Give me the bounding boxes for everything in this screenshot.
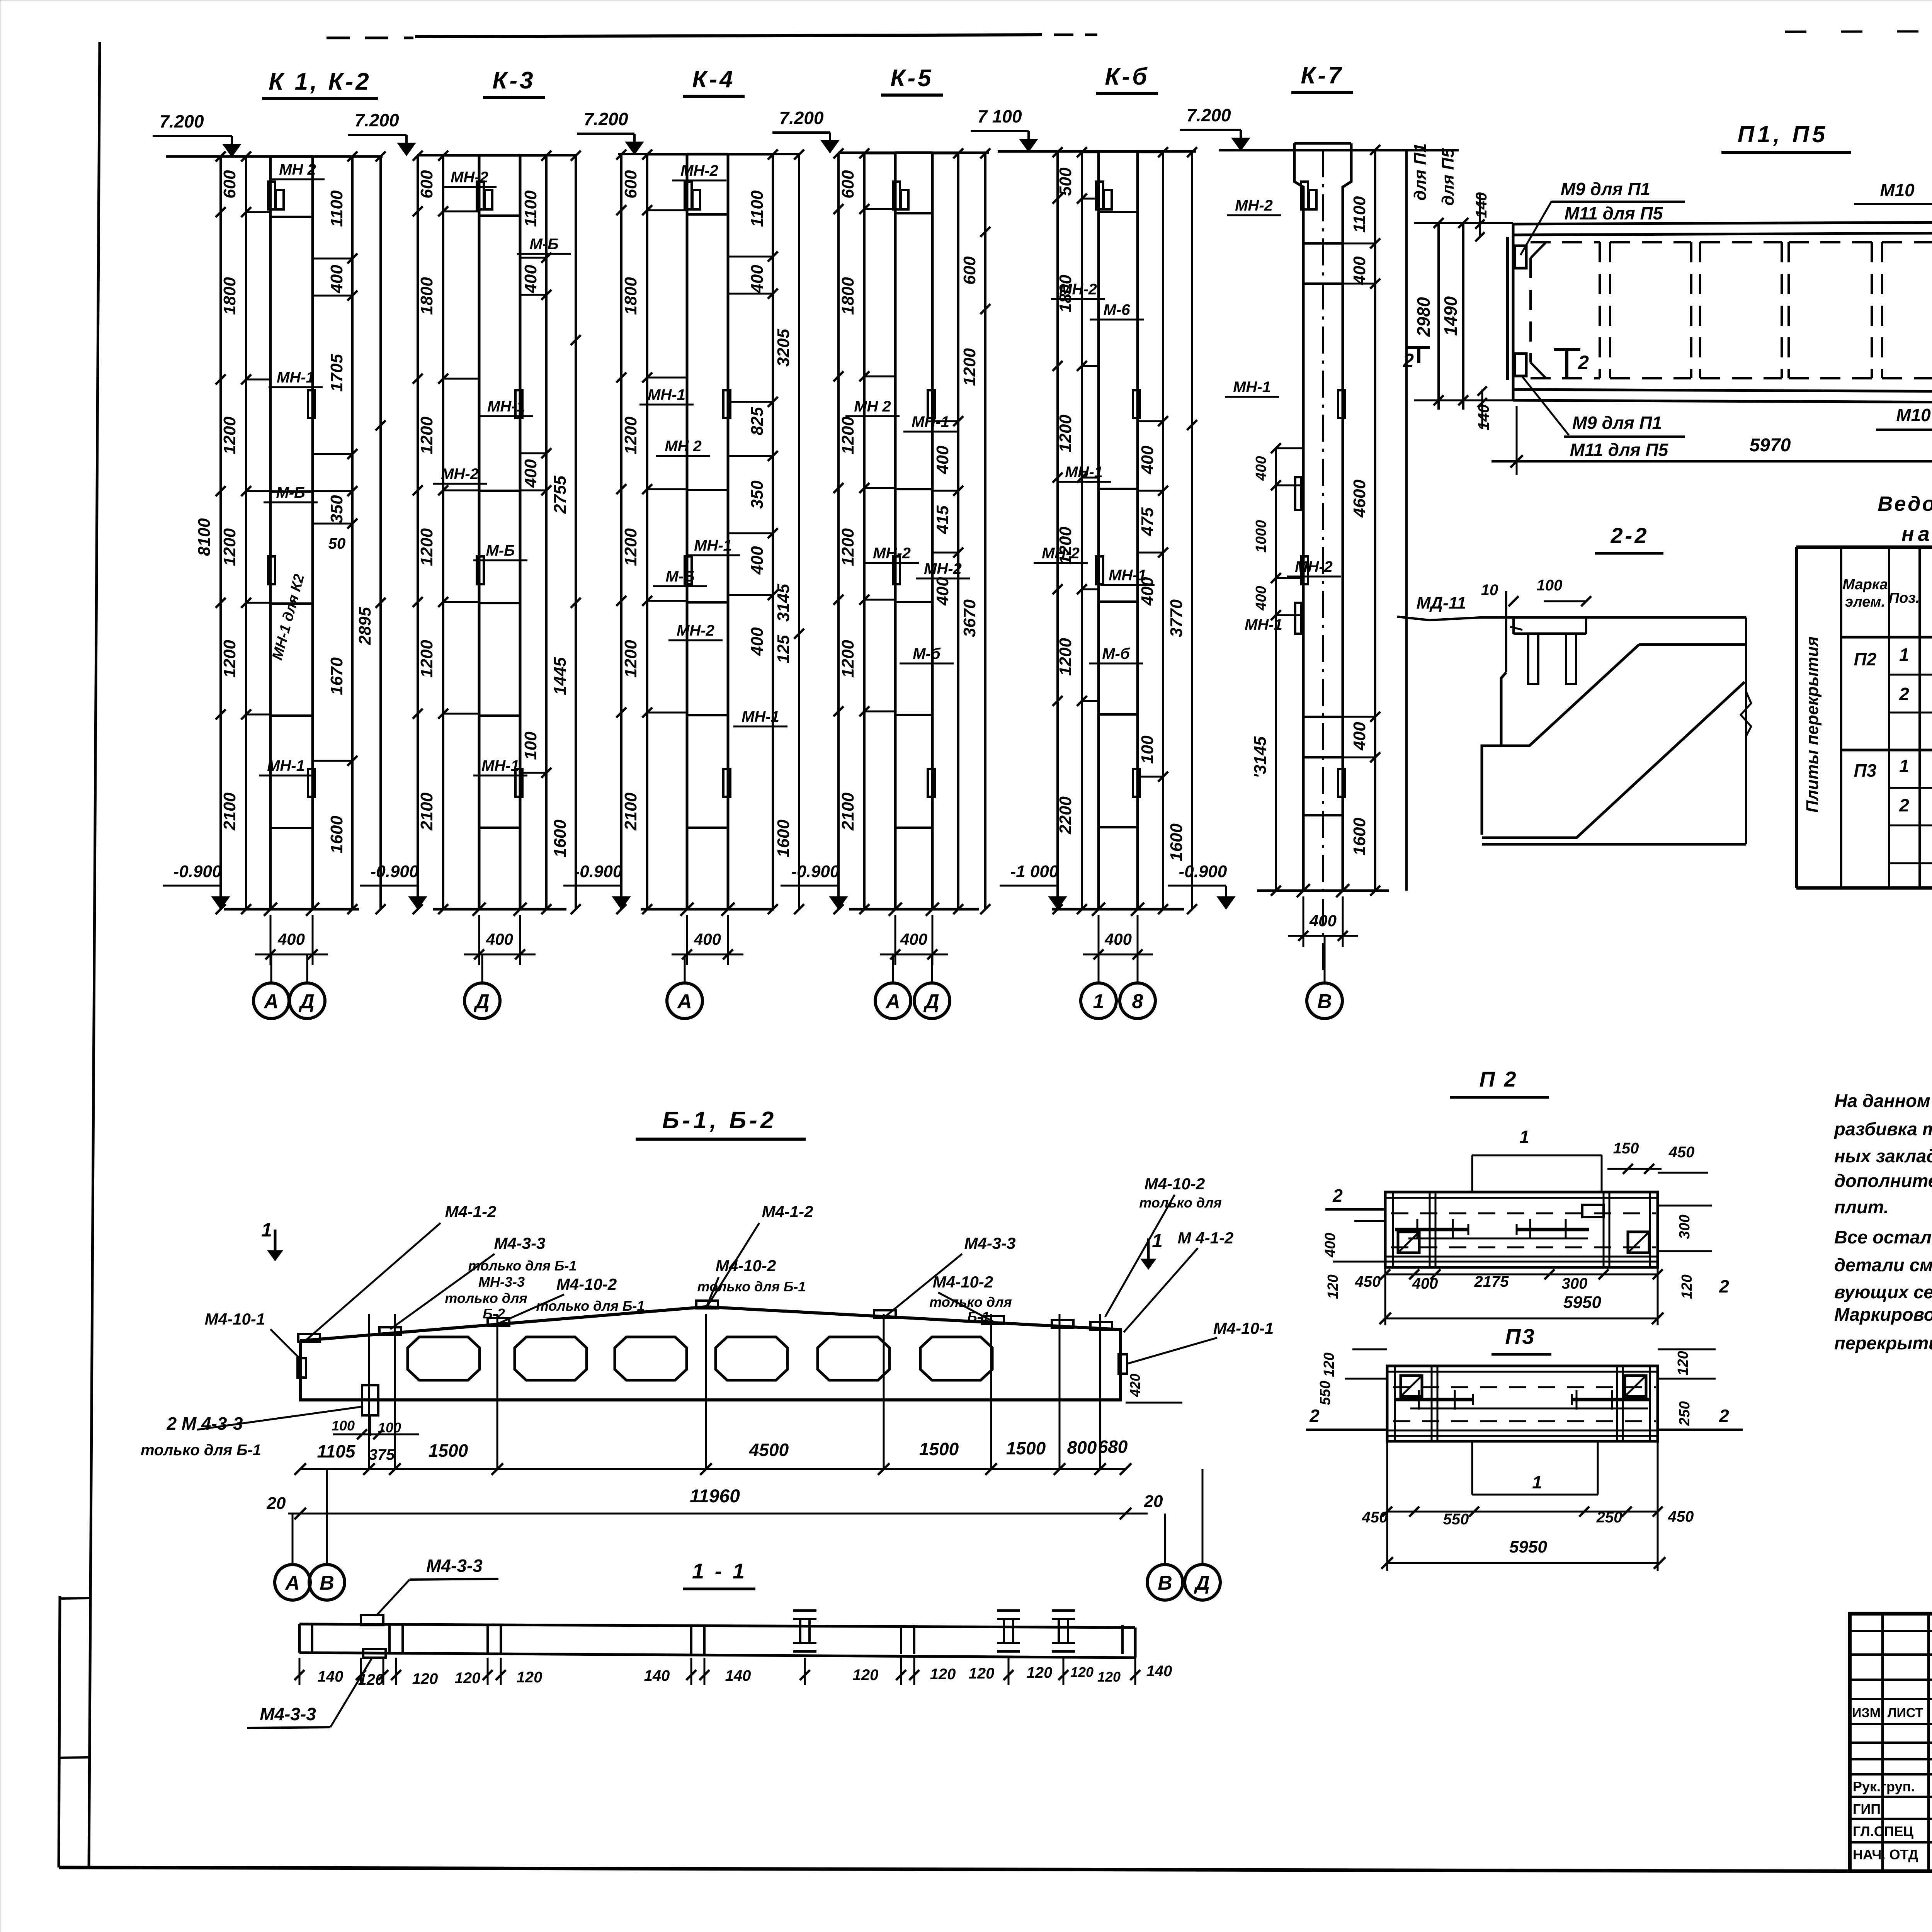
- svg-text:1200: 1200: [621, 640, 640, 678]
- sheet frame: left border: [89, 42, 100, 1867]
- column К-5 right dim lines: [957, 153, 959, 909]
- svg-text:МН-2: МН-2: [924, 560, 962, 577]
- section 1-1 internal verticals: [311, 1625, 313, 1654]
- svg-text:400: 400: [1253, 456, 1269, 481]
- column К-3 top level line: [417, 154, 576, 156]
- svg-text:1200: 1200: [220, 417, 239, 454]
- slab П1,П5 corner anchor М9/М11 marks: [1515, 246, 1526, 268]
- svg-text:100: 100: [378, 1420, 401, 1435]
- svg-text:2100: 2100: [838, 793, 857, 831]
- beam axis circles: [275, 1565, 310, 1600]
- svg-text:Д: Д: [298, 990, 315, 1013]
- svg-text:120: 120: [930, 1666, 956, 1683]
- svg-text:Все остальные закладные: Все остальные закладные: [1834, 1227, 1932, 1247]
- svg-text:1: 1: [1152, 1230, 1163, 1252]
- svg-text:М4-10-2: М4-10-2: [933, 1273, 993, 1291]
- column К-б embedded plates: [1096, 182, 1103, 209]
- svg-text:П1, П5: П1, П5: [1738, 121, 1828, 147]
- svg-text:В: В: [320, 1572, 334, 1594]
- column К-7 left dim chain: [1275, 448, 1277, 891]
- svg-text:5970: 5970: [1750, 435, 1791, 456]
- svg-text:М-Б: М-Б: [530, 236, 559, 253]
- svg-text:1200: 1200: [417, 417, 436, 454]
- column К-4 400 dim under: [686, 915, 688, 965]
- svg-text:МН-1: МН-1: [1065, 464, 1103, 481]
- slab П1,П5 outline top chord: [1513, 222, 1932, 224]
- svg-text:1200: 1200: [838, 417, 857, 454]
- svg-text:120: 120: [1675, 1351, 1691, 1375]
- column К-б base line: [1052, 908, 1184, 911]
- svg-text:7.200: 7.200: [779, 108, 824, 128]
- slab П3 corner anchors: [1401, 1376, 1422, 1396]
- svg-text:Д: Д: [473, 990, 490, 1013]
- svg-text:20: 20: [1144, 1492, 1163, 1511]
- svg-text:1200: 1200: [621, 417, 640, 454]
- beam Б-1,Б-2 section axes: [368, 1314, 370, 1468]
- slab П2 bottom dims: [1385, 1274, 1658, 1276]
- svg-text:2100: 2100: [220, 793, 239, 831]
- svg-text:1: 1: [1093, 990, 1104, 1013]
- svg-text:элем.: элем.: [1845, 594, 1885, 610]
- slab П3 dashed centers: [1393, 1386, 1656, 1388]
- column К-5 axis circles: [892, 954, 894, 983]
- svg-text:680: 680: [1098, 1437, 1128, 1457]
- column К-4 axis circles: [684, 954, 686, 983]
- svg-text:-0.900: -0.900: [173, 862, 222, 881]
- svg-text:2: 2: [1403, 350, 1414, 371]
- svg-text:140: 140: [725, 1667, 751, 1684]
- svg-text:250: 250: [1677, 1401, 1693, 1426]
- svg-text:1800: 1800: [838, 277, 857, 315]
- svg-text:МН-2: МН-2: [1042, 545, 1080, 562]
- svg-text:М-Б: М-Б: [666, 568, 695, 585]
- svg-text:50: 50: [328, 535, 346, 552]
- slab П2 corner anchors: [1398, 1232, 1419, 1253]
- svg-text:400: 400: [933, 577, 952, 606]
- svg-text:М4-3-3: М4-3-3: [260, 1704, 316, 1724]
- svg-text:3770: 3770: [1167, 599, 1186, 637]
- svg-text:К-5: К-5: [890, 65, 933, 92]
- svg-text:М4-10-2: М4-10-2: [556, 1275, 617, 1293]
- svg-text:2: 2: [1332, 1185, 1343, 1206]
- column К-3 right dim lines: [545, 155, 548, 909]
- svg-text:120: 120: [455, 1670, 481, 1687]
- column К-б right dim lines: [1162, 151, 1164, 909]
- slab П2 outline: [1385, 1192, 1658, 1267]
- svg-text:350: 350: [327, 495, 346, 524]
- column К-4 right dim lines: [772, 154, 774, 909]
- svg-text:МН-2: МН-2: [441, 466, 479, 483]
- column К-б 400 dim under: [1098, 915, 1100, 965]
- column К-4 top level line: [618, 153, 800, 155]
- svg-text:400: 400: [1350, 256, 1369, 285]
- svg-text:МН 2: МН 2: [279, 161, 316, 178]
- svg-text:МН-1: МН-1: [487, 398, 525, 415]
- beam Б-1,Б-2 leader lines: [305, 1223, 440, 1341]
- svg-text:М4-10-1: М4-10-1: [205, 1310, 265, 1328]
- svg-text:только для Б-1: только для Б-1: [141, 1442, 261, 1459]
- svg-text:400: 400: [1322, 1233, 1338, 1257]
- svg-text:3145: 3145: [774, 584, 793, 622]
- title block left columns: [1881, 1614, 1884, 1871]
- svg-text:для П1: для П1: [1411, 143, 1430, 201]
- sheet frame: bottom border: [59, 1867, 1932, 1873]
- svg-text:3670: 3670: [960, 599, 979, 637]
- svg-text:МН 2: МН 2: [854, 398, 891, 415]
- svg-text:600: 600: [960, 256, 979, 285]
- svg-text:1670: 1670: [327, 657, 346, 695]
- svg-text:В: В: [1158, 1572, 1172, 1594]
- svg-text:100: 100: [521, 731, 540, 760]
- svg-text:5950: 5950: [1563, 1293, 1601, 1312]
- column К-7 left plates: [1295, 477, 1301, 510]
- slab П2 tie marks: [1417, 1219, 1418, 1238]
- svg-text:1600: 1600: [551, 820, 570, 857]
- svg-text:для П5: для П5: [1439, 148, 1458, 206]
- detail 2-2 top slab line: [1397, 617, 1430, 620]
- slab П1,П5 bottom dim line 5970: [1516, 406, 1518, 475]
- svg-text:М-Б: М-Б: [486, 542, 515, 559]
- section 1-1 I-connectors: [793, 1609, 816, 1612]
- svg-text:М4-1-2: М4-1-2: [445, 1202, 496, 1221]
- svg-text:400: 400: [933, 446, 952, 474]
- svg-text:2: 2: [1578, 352, 1589, 373]
- svg-text:2755: 2755: [551, 476, 570, 514]
- column К-4 base line: [641, 908, 774, 911]
- svg-text:250: 250: [1596, 1509, 1622, 1526]
- svg-text:М11 для П5: М11 для П5: [1565, 203, 1663, 223]
- svg-text:10: 10: [1481, 582, 1498, 599]
- svg-text:120: 120: [853, 1667, 879, 1684]
- beam Б-1,Б-2 dim row: [300, 1468, 1126, 1470]
- svg-text:-0.900: -0.900: [1179, 862, 1227, 881]
- beam Б-1,Б-2 hanging element 2М4-3-3: [362, 1385, 378, 1415]
- svg-text:1200: 1200: [417, 640, 436, 678]
- column К-5 base line: [849, 908, 979, 911]
- svg-text:1800: 1800: [417, 277, 436, 315]
- svg-text:400: 400: [1350, 722, 1369, 751]
- svg-text:1200: 1200: [1056, 415, 1075, 452]
- svg-text:МН-2: МН-2: [1295, 558, 1333, 575]
- detail 2-2 break mark: [1741, 692, 1751, 736]
- svg-text:1: 1: [1899, 756, 1909, 776]
- svg-text:2895: 2895: [355, 607, 374, 645]
- svg-text:Б-1, Б-2: Б-1, Б-2: [662, 1107, 777, 1134]
- svg-text:Д: Д: [923, 990, 939, 1013]
- column К-4 left dim lines: [620, 154, 622, 909]
- svg-text:120: 120: [969, 1665, 995, 1682]
- column К-3 body: [478, 155, 481, 909]
- slab П2 verticals: [1392, 1192, 1394, 1267]
- svg-text:1200: 1200: [838, 528, 857, 566]
- svg-text:2-2: 2-2: [1611, 523, 1649, 548]
- column К-7 base line: [1257, 889, 1389, 892]
- svg-text:1500: 1500: [919, 1439, 959, 1459]
- svg-text:М9 для П1: М9 для П1: [1572, 413, 1662, 433]
- svg-text:М-б: М-б: [1102, 645, 1130, 662]
- svg-text:550: 550: [1443, 1511, 1469, 1528]
- svg-text:8: 8: [1132, 990, 1143, 1013]
- beam Б-1,Б-2 openings: [408, 1337, 480, 1380]
- svg-text:100: 100: [332, 1418, 355, 1434]
- svg-text:1705: 1705: [327, 354, 346, 392]
- slab П3 rebar lines: [1396, 1398, 1473, 1401]
- svg-text:450: 450: [1362, 1509, 1388, 1526]
- svg-text:3205: 3205: [774, 329, 793, 367]
- svg-text:500: 500: [1056, 167, 1075, 196]
- sheet frame: binding margin line bottom-left: [59, 1596, 60, 1867]
- svg-text:100: 100: [1537, 577, 1563, 594]
- svg-text:М-6: М-6: [1104, 301, 1131, 318]
- svg-text:МН-1: МН-1: [648, 386, 685, 403]
- svg-text:МН-1: МН-1: [1233, 379, 1271, 396]
- svg-text:1600: 1600: [1350, 818, 1369, 855]
- svg-text:1490: 1490: [1440, 296, 1461, 336]
- svg-text:120: 120: [1679, 1274, 1695, 1299]
- svg-text:2200: 2200: [1056, 796, 1075, 835]
- svg-text:МН-1: МН-1: [1245, 616, 1282, 633]
- svg-text:125: 125: [774, 635, 793, 663]
- section 1-1 bar: [299, 1624, 1135, 1628]
- svg-text:А: А: [284, 1572, 300, 1594]
- svg-text:1100: 1100: [521, 190, 540, 227]
- svg-text:1: 1: [1532, 1472, 1542, 1492]
- svg-text:Д: Д: [1194, 1572, 1210, 1594]
- svg-text:плит.: плит.: [1834, 1197, 1889, 1217]
- svg-text:400: 400: [1253, 586, 1269, 611]
- svg-text:2: 2: [1309, 1406, 1320, 1426]
- svg-text:1600: 1600: [774, 820, 793, 857]
- column К 1, К-2 400 dim under: [270, 915, 272, 965]
- svg-text:1600: 1600: [327, 816, 346, 854]
- svg-text:400: 400: [748, 627, 767, 656]
- beam Б-1,Б-2 outline: [300, 1307, 1121, 1400]
- detail 2-2 beam edge and chamfer: [1482, 672, 1506, 835]
- svg-text:Марка: Марка: [1842, 577, 1888, 593]
- svg-text:7 100: 7 100: [977, 106, 1022, 126]
- svg-text:только для: только для: [1139, 1195, 1221, 1211]
- svg-text:400: 400: [748, 546, 767, 575]
- slab П1,П5 inner dashed cells: [1531, 241, 1600, 243]
- svg-text:Маркировочную схему плит: Маркировочную схему плит: [1834, 1304, 1932, 1325]
- column К-7 body: [1294, 143, 1303, 891]
- svg-text:1500: 1500: [1006, 1438, 1046, 1458]
- svg-text:МН-2: МН-2: [873, 545, 911, 562]
- svg-text:1100: 1100: [748, 190, 767, 227]
- svg-text:К-7: К-7: [1301, 62, 1344, 89]
- svg-text:1000: 1000: [1253, 520, 1269, 553]
- svg-text:МН-1: МН-1: [481, 757, 519, 774]
- column К-3 left dim lines: [417, 155, 419, 909]
- svg-text:120: 120: [517, 1669, 543, 1686]
- svg-text:М 4-1-2: М 4-1-2: [1178, 1229, 1234, 1247]
- svg-text:300: 300: [1562, 1275, 1588, 1292]
- svg-text:М11 для П5: М11 для П5: [1570, 440, 1669, 460]
- svg-text:800: 800: [1067, 1437, 1097, 1458]
- column К-4 embedded plates: [685, 182, 692, 209]
- svg-text:МН-2: МН-2: [451, 169, 488, 186]
- svg-text:400: 400: [521, 459, 540, 488]
- svg-text:4600: 4600: [1350, 480, 1369, 518]
- svg-text:ных закладных деталей и: ных закладных деталей и: [1834, 1146, 1932, 1166]
- svg-text:140: 140: [318, 1668, 344, 1685]
- svg-text:1200: 1200: [838, 640, 857, 678]
- svg-text:2100: 2100: [621, 793, 640, 831]
- column К 1, К-2 left dim lines: [219, 156, 222, 909]
- svg-text:140: 140: [1146, 1663, 1172, 1680]
- svg-text:7.200: 7.200: [354, 110, 399, 130]
- column К-б axis circles: [1098, 954, 1100, 983]
- title block outer box: [1850, 1614, 1932, 1871]
- svg-text:-0.900: -0.900: [791, 862, 840, 881]
- svg-text:ГИП: ГИП: [1853, 1801, 1881, 1817]
- column К 1, К-2 right dim lines: [351, 156, 354, 909]
- svg-text:МН 2: МН 2: [665, 438, 702, 455]
- svg-text:МН-1: МН-1: [742, 708, 779, 725]
- slab П2 dashed centers: [1391, 1213, 1656, 1214]
- svg-text:400: 400: [1309, 912, 1337, 930]
- svg-text:300: 300: [1677, 1214, 1693, 1239]
- svg-text:450: 450: [1355, 1273, 1381, 1290]
- svg-text:МН-2: МН-2: [680, 162, 718, 179]
- svg-text:400: 400: [1104, 930, 1132, 948]
- svg-text:Б-2: Б-2: [483, 1306, 505, 1321]
- svg-text:550: 550: [1317, 1381, 1333, 1405]
- svg-text:М4-10-2: М4-10-2: [1145, 1175, 1205, 1193]
- svg-text:1800: 1800: [220, 277, 239, 315]
- svg-text:2: 2: [1719, 1276, 1729, 1296]
- svg-text:7.200: 7.200: [583, 109, 628, 129]
- svg-text:Б-1: Б-1: [967, 1309, 990, 1325]
- svg-text:М-б: М-б: [913, 645, 941, 662]
- svg-text:-0.900: -0.900: [371, 862, 419, 881]
- svg-text:А: А: [885, 990, 900, 1013]
- svg-text:'3145: '3145: [1251, 736, 1270, 778]
- svg-text:1100: 1100: [327, 190, 346, 227]
- column К-4 body: [686, 154, 689, 909]
- svg-text:600: 600: [220, 170, 239, 199]
- svg-text:1200: 1200: [417, 528, 436, 566]
- svg-text:600: 600: [621, 170, 640, 199]
- slab П3 tie marks: [1418, 1390, 1420, 1410]
- column К-7 embedded plates: [1301, 182, 1308, 209]
- svg-text:В: В: [1317, 990, 1332, 1013]
- svg-text:400: 400: [277, 930, 305, 948]
- svg-text:ЛИСТ: ЛИСТ: [1888, 1706, 1923, 1720]
- svg-text:420: 420: [1127, 1374, 1143, 1397]
- column К-3 axis circles: [481, 954, 483, 983]
- svg-text:Поз.: Поз.: [1889, 590, 1920, 606]
- svg-text:120: 120: [1097, 1669, 1121, 1685]
- svg-text:Плиты перекрытия: Плиты перекрытия: [1803, 636, 1822, 813]
- svg-text:М4-10-2: М4-10-2: [716, 1257, 776, 1275]
- svg-text:120: 120: [1321, 1352, 1337, 1377]
- column К-б left dim lines: [1056, 151, 1059, 909]
- beam Б-1,Б-2 end plates: [298, 1358, 306, 1378]
- svg-text:К-4: К-4: [692, 66, 735, 93]
- svg-text:Рук.груп.: Рук.груп.: [1853, 1779, 1915, 1794]
- svg-text:ИЗМ: ИЗМ: [1852, 1706, 1881, 1720]
- svg-text:М10: М10: [1896, 405, 1931, 425]
- svg-text:А: А: [263, 990, 279, 1013]
- svg-text:1: 1: [1899, 645, 1909, 665]
- slab П3 bottom dims: [1387, 1511, 1658, 1513]
- sheet frame: top border dashed-solid: [327, 37, 413, 39]
- svg-text:Ведомость стержней: Ведомость стержней: [1878, 492, 1932, 515]
- svg-text:А: А: [677, 990, 692, 1013]
- title block left rows: [1850, 1630, 1932, 1632]
- column К-7 axis circles: [1324, 936, 1326, 983]
- table Ведомость grid: [1795, 547, 1798, 888]
- column К 1, К-2 axis circles: [270, 954, 272, 983]
- svg-text:только для: только для: [445, 1290, 527, 1306]
- svg-text:120: 120: [1325, 1274, 1341, 1299]
- svg-text:2 М 4-3-3: 2 М 4-3-3: [167, 1413, 243, 1434]
- slab П2 dims left: [1354, 1220, 1385, 1222]
- svg-text:475: 475: [1138, 507, 1157, 536]
- svg-text:М9 для П1: М9 для П1: [1561, 179, 1650, 199]
- slab П1,П5 left end bar: [1506, 237, 1509, 380]
- column К 1, К-2 body: [269, 156, 272, 909]
- column К-7 center axis: [1322, 150, 1324, 974]
- svg-text:7.200: 7.200: [159, 111, 204, 131]
- svg-text:перекрытия см. лист КЖ-18.: перекрытия см. лист КЖ-18.: [1834, 1333, 1932, 1353]
- svg-text:11960: 11960: [690, 1486, 740, 1507]
- beam Б-1,Б-2 top plates: [298, 1334, 320, 1342]
- svg-text:150: 150: [1613, 1140, 1639, 1157]
- svg-text:вующих сериях.: вующих сериях.: [1834, 1282, 1932, 1302]
- svg-text:К 1, К-2: К 1, К-2: [269, 68, 371, 95]
- svg-text:375: 375: [369, 1446, 395, 1463]
- svg-text:1500: 1500: [429, 1440, 468, 1461]
- svg-text:1 - 1: 1 - 1: [692, 1559, 747, 1583]
- column К 1, К-2 base line: [224, 908, 359, 911]
- svg-text:МН-1: МН-1: [277, 369, 315, 386]
- svg-text:МН-3-3: МН-3-3: [478, 1274, 525, 1290]
- svg-text:1: 1: [1519, 1127, 1529, 1147]
- svg-text:МД-11: МД-11: [1417, 594, 1466, 612]
- column К 1, К-2 embedded plates: [268, 182, 275, 209]
- column К-5 body: [894, 153, 897, 909]
- slab П2 rebar lines: [1395, 1228, 1468, 1231]
- svg-text:415: 415: [933, 505, 952, 534]
- svg-text:450: 450: [1668, 1508, 1694, 1525]
- section 1-1 dim row: [299, 1658, 301, 1685]
- svg-text:400: 400: [900, 930, 927, 948]
- column К-5 400 dim under: [895, 915, 896, 965]
- beam Б-1,Б-2 dim 11960: [288, 1513, 1148, 1515]
- svg-text:МН-1: МН-1: [267, 757, 305, 774]
- slab П1,П5 left dim lines: [1437, 223, 1440, 410]
- svg-text:МН-1: МН-1: [912, 413, 949, 430]
- svg-text:П3: П3: [1505, 1324, 1536, 1349]
- column К-б body: [1097, 151, 1100, 909]
- column К-3 embedded plates: [477, 182, 484, 209]
- slab П3 outline: [1387, 1366, 1658, 1441]
- svg-text:На данном листе показана: На данном листе показана: [1834, 1090, 1932, 1111]
- svg-text:М10: М10: [1880, 180, 1915, 200]
- svg-text:МН-2: МН-2: [1235, 197, 1273, 214]
- svg-text:450: 450: [1668, 1144, 1695, 1161]
- svg-text:МН-2: МН-2: [1059, 281, 1097, 298]
- column К-5 embedded plates: [893, 182, 900, 209]
- svg-text:20: 20: [267, 1494, 286, 1513]
- svg-text:400: 400: [1138, 446, 1157, 474]
- svg-text:120: 120: [1070, 1664, 1094, 1680]
- svg-text:1445: 1445: [551, 657, 570, 695]
- svg-text:825: 825: [748, 407, 767, 435]
- svg-text:МН-1: МН-1: [1109, 567, 1146, 584]
